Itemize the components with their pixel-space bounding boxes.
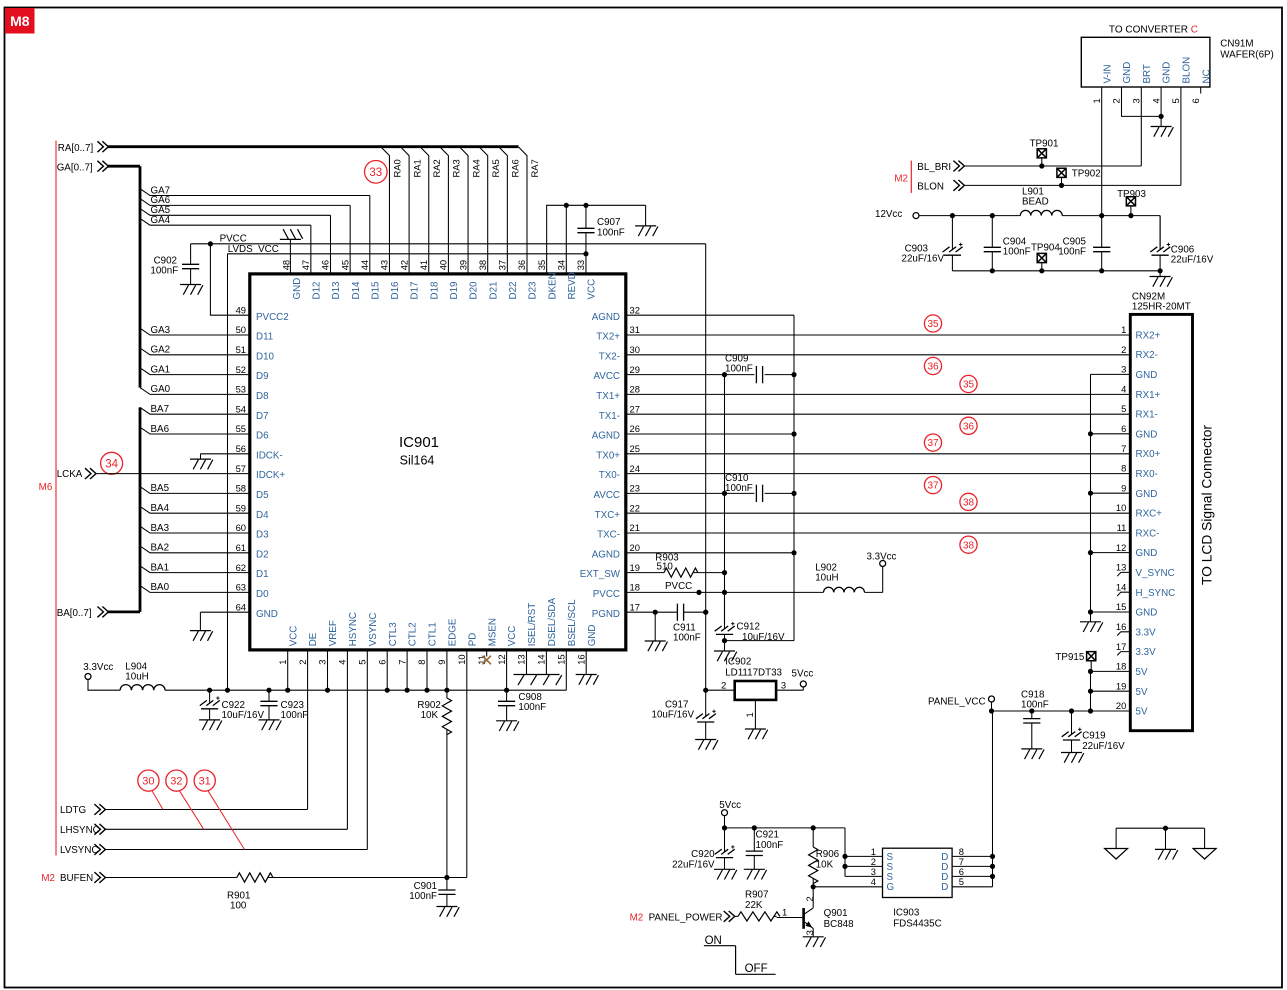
wire IC901 pin12 VCC to rail bbox=[506, 650, 508, 690]
svg-text:42: 42 bbox=[398, 260, 409, 270]
wire IC902 pin3 input to 5Vcc bbox=[776, 687, 803, 690]
wire LCKA to IC901 pin57 bbox=[96, 473, 250, 475]
ground at IDCK- bbox=[190, 459, 213, 469]
svg-text:BL_BRI: BL_BRI bbox=[917, 162, 951, 173]
annotation circled 36 pair bbox=[924, 357, 941, 374]
svg-text:VCC: VCC bbox=[587, 279, 598, 300]
annotation circled 35 pair bbox=[924, 315, 941, 332]
wire CN92M pin 13 open stub bbox=[1117, 572, 1130, 576]
svg-text:DKEN: DKEN bbox=[547, 272, 558, 299]
wire GA5 to IC901 pin bbox=[140, 209, 331, 274]
svg-text:4: 4 bbox=[871, 876, 876, 887]
svg-text:D5: D5 bbox=[256, 490, 269, 501]
svg-text:47: 47 bbox=[300, 260, 311, 270]
wire IC901 pin18 PVCC line to L902 bbox=[626, 567, 883, 593]
svg-text:16: 16 bbox=[575, 654, 586, 664]
svg-text:22uF/16V: 22uF/16V bbox=[1082, 741, 1125, 752]
svg-text:61: 61 bbox=[236, 542, 246, 553]
TMDS wire TX1- IC901 pin27 to CN92M pin5 bbox=[626, 413, 1131, 415]
wire IC903 drain rail to PANEL_VCC bbox=[952, 711, 992, 887]
svg-text:D18: D18 bbox=[429, 281, 440, 300]
svg-text:5: 5 bbox=[1170, 98, 1181, 103]
annotation circled 37 pair bbox=[924, 434, 941, 451]
svg-text:58: 58 bbox=[236, 483, 246, 494]
svg-text:GA4: GA4 bbox=[151, 215, 171, 226]
wire IC901 pin1 VCC to rail bbox=[287, 650, 289, 690]
svg-text:GA3: GA3 bbox=[151, 325, 171, 336]
wire IC901 pin26 AGND bbox=[626, 433, 794, 435]
svg-text:Q901: Q901 bbox=[824, 908, 848, 919]
wire CN92M GND rail pins 3/6/9/12/15 bbox=[1091, 374, 1131, 612]
wire LDTG to IC901 pin2 DE bbox=[105, 650, 308, 810]
svg-text:TX2-: TX2- bbox=[599, 351, 620, 362]
svg-text:54: 54 bbox=[236, 403, 246, 414]
svg-text:100nF: 100nF bbox=[725, 364, 753, 375]
wire CN92M pin 16 open stub bbox=[1117, 632, 1130, 636]
svg-text:PVCC2: PVCC2 bbox=[256, 312, 289, 323]
svg-text:22: 22 bbox=[630, 502, 640, 513]
ground at C901 bbox=[436, 907, 459, 917]
svg-text:BA[0..7]: BA[0..7] bbox=[57, 608, 92, 619]
wire chassis tie bar bbox=[1116, 828, 1205, 849]
wire CN92M pin 14 open stub bbox=[1117, 592, 1130, 596]
svg-text:36: 36 bbox=[927, 362, 939, 373]
annotation circled 33 bbox=[365, 161, 388, 184]
svg-text:BRT: BRT bbox=[1142, 64, 1153, 83]
wire CN92M 5V pin 20 stub bbox=[1091, 710, 1131, 712]
svg-text:GND: GND bbox=[587, 625, 598, 647]
svg-text:PVCC: PVCC bbox=[220, 233, 247, 244]
svg-text:TO LCD Signal Connector: TO LCD Signal Connector bbox=[1200, 425, 1215, 585]
wire IC901 pin13 ISEL/RST to ground bbox=[526, 650, 528, 675]
svg-text:BLON: BLON bbox=[917, 181, 944, 192]
wire BA4 to IC901 bbox=[140, 506, 250, 513]
svg-text:2: 2 bbox=[1111, 98, 1122, 103]
svg-text:D1: D1 bbox=[256, 569, 269, 580]
wire CN91M pin2 GND down then right to pin4 bbox=[1122, 87, 1162, 116]
svg-text:10uH: 10uH bbox=[815, 573, 838, 584]
svg-text:3: 3 bbox=[781, 679, 786, 690]
ground at DKEN/REVD line bbox=[635, 226, 658, 236]
svg-text:3.3V: 3.3V bbox=[1136, 627, 1157, 638]
svg-text:45: 45 bbox=[339, 260, 350, 270]
wire CN92M GND pin 9 stub bbox=[1091, 492, 1131, 494]
svg-text:LVDS_VCC: LVDS_VCC bbox=[228, 244, 279, 255]
svg-text:15: 15 bbox=[556, 654, 567, 664]
svg-text:VSYNC: VSYNC bbox=[368, 613, 379, 647]
svg-text:64: 64 bbox=[236, 601, 246, 612]
svg-text:M2: M2 bbox=[41, 873, 55, 884]
wire GA0 to IC901 bbox=[140, 388, 250, 395]
svg-text:3.3Vcc: 3.3Vcc bbox=[83, 662, 113, 673]
wire PVCC2 drop to IC901 pin49 bbox=[210, 244, 249, 315]
svg-text:35: 35 bbox=[963, 380, 975, 391]
annotation circled 30 with leader bbox=[138, 770, 159, 791]
svg-text:D0: D0 bbox=[256, 589, 269, 600]
svg-text:22uF/16V: 22uF/16V bbox=[1171, 255, 1214, 266]
wire IC901 pin17 PGND bbox=[626, 611, 706, 613]
svg-text:BEAD: BEAD bbox=[1022, 196, 1049, 207]
svg-text:LCKA: LCKA bbox=[57, 469, 83, 480]
svg-text:100: 100 bbox=[230, 900, 247, 911]
svg-text:TXC+: TXC+ bbox=[595, 510, 621, 521]
wire GA3 to IC901 bbox=[140, 328, 250, 335]
svg-text:100nF: 100nF bbox=[1003, 246, 1031, 257]
svg-text:5V: 5V bbox=[1136, 707, 1148, 718]
svg-text:9: 9 bbox=[436, 660, 447, 665]
svg-text:CN91M: CN91M bbox=[1220, 39, 1253, 50]
svg-text:RA6: RA6 bbox=[510, 159, 521, 177]
ground at 12V filter bbox=[1150, 277, 1173, 287]
svg-text:10K: 10K bbox=[816, 859, 834, 870]
svg-text:V_SYNC: V_SYNC bbox=[1136, 568, 1175, 579]
wire BA5 to IC901 bbox=[140, 487, 250, 494]
TMDS wire TXC- IC901 pin21 to CN92M pin11 bbox=[626, 532, 1131, 534]
wire IC901 pin8 CTL1 to rail bbox=[426, 650, 428, 690]
svg-text:15: 15 bbox=[1116, 601, 1126, 612]
ground at IC902 pin1 bbox=[745, 729, 768, 739]
ground at C921 bbox=[744, 869, 767, 879]
svg-text:3: 3 bbox=[1131, 98, 1142, 103]
svg-text:GA2: GA2 bbox=[151, 345, 171, 356]
bus branch RA4 bbox=[460, 147, 468, 274]
svg-text:D7: D7 bbox=[256, 411, 269, 422]
svg-text:BA7: BA7 bbox=[151, 404, 170, 415]
Q901 collector bbox=[804, 887, 814, 915]
wire CN91M pin5 BLON down to BLON line bbox=[1180, 87, 1182, 185]
svg-text:1: 1 bbox=[782, 907, 787, 918]
svg-text:43: 43 bbox=[379, 260, 390, 270]
svg-text:TX1-: TX1- bbox=[599, 411, 620, 422]
svg-text:14: 14 bbox=[1116, 581, 1126, 592]
svg-text:1: 1 bbox=[1091, 98, 1102, 103]
svg-text:RX0-: RX0- bbox=[1136, 469, 1158, 480]
wire IC901 pin34 REVD vertical to ground line bbox=[565, 205, 567, 274]
svg-text:TX0+: TX0+ bbox=[596, 450, 620, 461]
node PVCC at pin49 drop bbox=[208, 241, 213, 246]
svg-text:33: 33 bbox=[575, 260, 586, 270]
wire 3.3Vcc to rail bbox=[88, 680, 120, 691]
TMDS wire TX0+ IC901 pin25 to CN92M pin7 bbox=[626, 453, 1131, 455]
svg-text:59: 59 bbox=[236, 502, 246, 513]
svg-text:PD: PD bbox=[467, 633, 478, 647]
svg-text:V-IN: V-IN bbox=[1102, 64, 1113, 83]
svg-text:GND: GND bbox=[1136, 429, 1158, 440]
svg-text:18: 18 bbox=[1116, 661, 1126, 672]
wire CN92M pin 17 open stub bbox=[1117, 652, 1130, 656]
bus branch RA7 bbox=[519, 147, 527, 274]
svg-text:MSEN: MSEN bbox=[487, 618, 498, 646]
svg-text:VCC: VCC bbox=[288, 626, 299, 647]
svg-text:D13: D13 bbox=[331, 281, 342, 300]
svg-text:8: 8 bbox=[416, 660, 427, 665]
svg-text:BA2: BA2 bbox=[151, 543, 170, 554]
svg-text:D12: D12 bbox=[311, 282, 322, 300]
svg-text:AVCC: AVCC bbox=[594, 371, 621, 382]
svg-text:1: 1 bbox=[1121, 324, 1126, 335]
svg-text:GA1: GA1 bbox=[151, 364, 171, 375]
svg-text:38: 38 bbox=[963, 498, 975, 509]
wire BA6 to IC901 bbox=[140, 427, 250, 434]
svg-text:12: 12 bbox=[1116, 542, 1126, 553]
svg-text:RA2: RA2 bbox=[431, 159, 442, 177]
wire IC901 pin20 AGND bbox=[626, 552, 794, 554]
svg-text:D14: D14 bbox=[351, 281, 362, 300]
wire gate line R906/Q901 to IC903 pin4 bbox=[813, 886, 882, 888]
svg-text:10uF/16V: 10uF/16V bbox=[652, 710, 695, 721]
wire IC901 pin7 CTL2 to rail bbox=[406, 650, 408, 690]
svg-text:PGND: PGND bbox=[592, 609, 620, 620]
Q901 emitter with arrow bbox=[804, 921, 814, 937]
ground at Q901 emitter bbox=[803, 937, 826, 947]
wire BUFEN through R901 to IC901 pin10 PD bbox=[105, 650, 467, 878]
annotation circled 34 bbox=[101, 452, 123, 474]
svg-text:21: 21 bbox=[630, 522, 640, 533]
svg-text:4: 4 bbox=[1150, 98, 1161, 103]
svg-text:6: 6 bbox=[959, 866, 964, 877]
svg-text:RXC+: RXC+ bbox=[1136, 509, 1163, 520]
svg-text:20: 20 bbox=[1116, 700, 1126, 711]
svg-text:100nF: 100nF bbox=[518, 702, 546, 713]
ground at C923 bbox=[259, 720, 282, 730]
svg-text:100nF: 100nF bbox=[725, 483, 753, 494]
svg-text:40: 40 bbox=[438, 260, 449, 270]
svg-text:2: 2 bbox=[721, 679, 726, 690]
ground at C912 bbox=[714, 651, 737, 661]
svg-text:DE: DE bbox=[308, 632, 319, 646]
chassis arrow right bbox=[1193, 849, 1216, 860]
svg-text:G: G bbox=[887, 882, 895, 893]
svg-text:AGND: AGND bbox=[592, 431, 620, 442]
svg-text:5Vcc: 5Vcc bbox=[792, 668, 814, 679]
wire CN92M 5V pin 19 stub bbox=[1091, 690, 1131, 692]
svg-text:38: 38 bbox=[963, 540, 975, 551]
wire IC901 pin16 GND to ground bbox=[585, 650, 587, 675]
wire IC901 pin9 EDGE through rail to R902 bbox=[446, 650, 448, 698]
ground at C922 bbox=[199, 720, 222, 730]
wire CN91M pin1 V-IN to 12V rail bbox=[1101, 87, 1103, 216]
svg-text:3: 3 bbox=[317, 660, 328, 665]
svg-text:D16: D16 bbox=[390, 281, 401, 300]
svg-text:TX1+: TX1+ bbox=[596, 391, 620, 402]
svg-text:BA6: BA6 bbox=[151, 424, 170, 435]
svg-text:GA[0..7]: GA[0..7] bbox=[57, 163, 93, 174]
ground at C918 bbox=[1021, 749, 1044, 759]
svg-text:D19: D19 bbox=[449, 282, 460, 300]
svg-text:10uH: 10uH bbox=[125, 672, 148, 683]
wire GA1 to IC901 bbox=[140, 368, 250, 375]
svg-text:DSEL/SDA: DSEL/SDA bbox=[547, 597, 558, 646]
svg-text:TX0-: TX0- bbox=[599, 470, 620, 481]
svg-text:EXT_SW: EXT_SW bbox=[580, 569, 621, 580]
wire IC901 pin19 EXT_SW through R903 bbox=[626, 572, 725, 574]
IC IC901 Sil164 DVI transmitter bbox=[250, 274, 626, 650]
svg-text:36: 36 bbox=[516, 260, 527, 270]
svg-text:S: S bbox=[887, 872, 894, 883]
svg-text:52: 52 bbox=[236, 364, 246, 375]
svg-text:8: 8 bbox=[1121, 463, 1126, 474]
ground at PGND bbox=[645, 641, 668, 651]
svg-text:56: 56 bbox=[236, 443, 246, 454]
ground at C902 bbox=[180, 285, 203, 295]
svg-text:LD1117DT33: LD1117DT33 bbox=[725, 667, 782, 678]
ground at chassis tie bbox=[1155, 849, 1178, 859]
svg-text:53: 53 bbox=[236, 384, 246, 395]
svg-text:18: 18 bbox=[630, 582, 640, 593]
svg-text:46: 46 bbox=[320, 260, 331, 270]
svg-text:34: 34 bbox=[105, 458, 118, 470]
svg-text:6: 6 bbox=[1190, 98, 1201, 103]
svg-text:29: 29 bbox=[630, 364, 640, 375]
wire GA7 to IC901 pin bbox=[140, 189, 370, 274]
wire BA1 to IC901 bbox=[140, 566, 250, 573]
svg-text:CTL3: CTL3 bbox=[388, 622, 399, 647]
wire BA2 to IC901 bbox=[140, 546, 250, 553]
svg-text:7: 7 bbox=[396, 660, 407, 665]
svg-text:IC903: IC903 bbox=[893, 908, 920, 919]
svg-text:2: 2 bbox=[297, 660, 308, 665]
svg-text:M8: M8 bbox=[10, 13, 30, 29]
svg-text:3: 3 bbox=[804, 930, 815, 935]
svg-text:C912: C912 bbox=[737, 622, 760, 633]
Q901 base wire from R907 bbox=[777, 917, 804, 919]
svg-text:57: 57 bbox=[236, 463, 246, 474]
wire IC901 pin14 DSEL/SDA to ground bbox=[545, 650, 547, 675]
wire AGND rail bottom to C912 bbox=[725, 640, 795, 642]
svg-text:49: 49 bbox=[236, 304, 246, 315]
wire 5V rail to IC903 S pins bbox=[725, 816, 846, 877]
svg-text:12Vcc: 12Vcc bbox=[875, 209, 902, 220]
svg-text:100nF: 100nF bbox=[409, 891, 437, 902]
svg-text:TXC-: TXC- bbox=[597, 530, 620, 541]
wire IC901 pin32 AGND to AGND rail bbox=[626, 315, 794, 640]
svg-text:D20: D20 bbox=[469, 281, 480, 300]
svg-text:30: 30 bbox=[142, 776, 154, 788]
wire IC903 S pin stubs bbox=[845, 856, 883, 876]
svg-text:HSYNC: HSYNC bbox=[348, 612, 359, 646]
svg-text:BSEL/SCL: BSEL/SCL bbox=[567, 599, 578, 646]
svg-text:10uF/16V: 10uF/16V bbox=[222, 710, 265, 721]
svg-text:LVSYNC: LVSYNC bbox=[60, 845, 98, 856]
wire CN92M GND pin 6 stub bbox=[1091, 433, 1131, 435]
svg-text:10: 10 bbox=[456, 654, 467, 664]
svg-text:GND: GND bbox=[1162, 62, 1173, 84]
wire IC901 pin23 AVCC with C910 to AGND rail bbox=[626, 492, 794, 494]
wire IC901 pin29 AVCC with C909 to AGND rail bbox=[626, 374, 794, 376]
wire IC901 pin48 GND vertical bbox=[289, 239, 291, 274]
svg-text:17: 17 bbox=[630, 601, 640, 612]
svg-text:100nF: 100nF bbox=[1021, 700, 1049, 711]
svg-text:EDGE: EDGE bbox=[448, 618, 459, 646]
svg-text:GND: GND bbox=[256, 609, 278, 620]
svg-text:D: D bbox=[941, 872, 948, 883]
TMDS wire TX0- IC901 pin24 to CN92M pin8 bbox=[626, 473, 1131, 475]
svg-text:BA3: BA3 bbox=[151, 523, 170, 534]
wire GA2 to IC901 bbox=[140, 348, 250, 355]
svg-text:6: 6 bbox=[376, 660, 387, 665]
svg-text:D8: D8 bbox=[256, 391, 269, 402]
ground up-pointing at IC901 pin48 bbox=[280, 229, 303, 239]
svg-text:10K: 10K bbox=[421, 710, 439, 721]
svg-text:TX2+: TX2+ bbox=[596, 332, 620, 343]
svg-text:D17: D17 bbox=[410, 282, 421, 300]
svg-text:BA1: BA1 bbox=[151, 562, 170, 573]
wire IC901 pin33 VCC vertical bbox=[585, 205, 587, 274]
svg-text:VCC: VCC bbox=[507, 626, 518, 647]
svg-text:BC848: BC848 bbox=[824, 919, 855, 930]
svg-text:PANEL_POWER: PANEL_POWER bbox=[649, 913, 723, 924]
svg-text:Sil164: Sil164 bbox=[400, 454, 435, 468]
svg-text:RX2+: RX2+ bbox=[1136, 330, 1161, 341]
svg-text:RXC-: RXC- bbox=[1136, 528, 1160, 539]
svg-text:TP915: TP915 bbox=[1055, 652, 1084, 663]
svg-text:TP904: TP904 bbox=[1031, 243, 1060, 254]
svg-text:M2: M2 bbox=[894, 174, 908, 185]
wire LHSYNC to IC901 pin4 HSYNC bbox=[105, 650, 347, 829]
svg-text:BLON: BLON bbox=[1182, 57, 1193, 84]
svg-text:WAFER(6P): WAFER(6P) bbox=[1220, 50, 1274, 61]
svg-text:25: 25 bbox=[630, 443, 640, 454]
chassis arrow left bbox=[1105, 849, 1128, 860]
svg-text:4: 4 bbox=[1121, 383, 1126, 394]
wire BA7 to IC901 bbox=[140, 407, 250, 414]
no-connect X at IC901 pin11 MSEN bbox=[486, 650, 488, 657]
wire GND rail to ground bbox=[1090, 612, 1092, 622]
svg-text:27: 27 bbox=[630, 403, 640, 414]
wire BA3 to IC901 bbox=[140, 526, 250, 533]
svg-text:D23: D23 bbox=[528, 281, 539, 300]
bus branch RA5 bbox=[480, 147, 488, 274]
wire PVCC rail from C902 across to right and down to IC902 output bbox=[191, 244, 706, 690]
svg-text:13: 13 bbox=[1116, 562, 1126, 573]
ground at CN92M GND rail bbox=[1080, 622, 1103, 632]
bus branch RA1 bbox=[401, 147, 409, 274]
svg-text:13: 13 bbox=[516, 654, 527, 664]
svg-text:100nF: 100nF bbox=[150, 266, 178, 277]
svg-text:30: 30 bbox=[630, 344, 640, 355]
ground wide at IC901 pins13/14 bbox=[514, 675, 562, 686]
svg-text:D9: D9 bbox=[256, 371, 269, 382]
svg-text:AGND: AGND bbox=[592, 549, 620, 560]
svg-text:12: 12 bbox=[496, 654, 507, 664]
svg-text:RX1-: RX1- bbox=[1136, 410, 1158, 421]
svg-text:10uF/16V: 10uF/16V bbox=[742, 632, 785, 643]
svg-text:RA1: RA1 bbox=[411, 159, 422, 177]
ground at IC901 pin16 bbox=[576, 675, 599, 685]
svg-text:GND: GND bbox=[292, 278, 303, 300]
svg-text:9: 9 bbox=[1121, 482, 1126, 493]
svg-text:34: 34 bbox=[556, 260, 567, 270]
svg-text:5V: 5V bbox=[1136, 667, 1148, 678]
svg-text:REVD: REVD bbox=[567, 272, 578, 299]
wire BA0 to IC901 bbox=[140, 586, 250, 593]
annotation circled 32 with leader bbox=[166, 770, 187, 791]
svg-text:D22: D22 bbox=[508, 282, 519, 300]
svg-text:IC901: IC901 bbox=[399, 434, 439, 451]
svg-text:CTL1: CTL1 bbox=[428, 622, 439, 646]
wire IC901 pin56 IDCK- to ground bbox=[201, 454, 250, 459]
svg-text:10: 10 bbox=[1116, 502, 1126, 513]
svg-text:M6: M6 bbox=[39, 482, 53, 493]
svg-text:IC902: IC902 bbox=[725, 656, 751, 667]
svg-text:6: 6 bbox=[1121, 423, 1126, 434]
svg-text:7: 7 bbox=[1121, 443, 1126, 454]
svg-text:NC: NC bbox=[1201, 69, 1212, 83]
connector CN91M bbox=[1081, 37, 1210, 87]
svg-text:M2: M2 bbox=[630, 913, 644, 924]
svg-text:22K: 22K bbox=[745, 900, 763, 911]
svg-text:3.3V: 3.3V bbox=[1136, 647, 1157, 658]
